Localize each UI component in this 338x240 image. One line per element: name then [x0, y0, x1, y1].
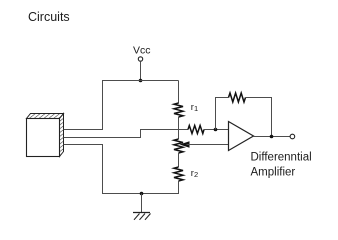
- node junction dot ground: [140, 192, 144, 196]
- label Differenntial Amplifier: [251, 152, 312, 179]
- wire sensor bottom lead and left vertical lower: [64, 145, 103, 194]
- node junction dot VCC / top rail: [139, 79, 143, 83]
- wire sensor middle lead with step: [64, 130, 189, 138]
- wire feedback left vertical: [216, 98, 229, 130]
- svg-text:Differenntial: Differenntial: [251, 152, 312, 164]
- resistor feedback: [229, 93, 246, 102]
- wire r2 to bottom rail: [178, 181, 180, 194]
- wire potentiometer to r2: [178, 153, 180, 167]
- wire bottom rail: [102, 193, 179, 195]
- wire r1 branch top: [178, 81, 180, 104]
- wire feedback right down to output: [246, 98, 272, 137]
- wire series resistor to inverting input: [204, 129, 229, 131]
- node junction dot inverting input: [214, 128, 218, 132]
- svg-text:r2: r2: [191, 168, 198, 179]
- svg-text:Circuits: Circuits: [28, 10, 70, 24]
- wire op-amp output: [254, 136, 291, 138]
- wire r1 to potentiometer: [178, 117, 180, 139]
- op-amp U1: [229, 122, 254, 151]
- svg-text:Vcc: Vcc: [133, 45, 151, 57]
- resistor r2: [174, 167, 183, 181]
- resistor series input (horizontal): [188, 126, 204, 134]
- wire left vertical upper (top rail to sensor top lead): [102, 80, 104, 130]
- wire sensor top lead: [64, 129, 104, 131]
- svg-text:r1: r1: [191, 102, 198, 113]
- ground: [133, 194, 151, 220]
- sensor box (strain gauge): [27, 114, 64, 157]
- svg-text:Amplifier: Amplifier: [251, 167, 296, 179]
- output terminal circle: [290, 134, 295, 139]
- wire VCC stem: [140, 61, 142, 80]
- node junction dot output: [270, 135, 274, 139]
- potentiometer wiper arrow: [180, 141, 229, 148]
- resistor r1: [174, 103, 183, 117]
- VCC terminal circle: [138, 57, 142, 61]
- wire top rail: [102, 80, 179, 82]
- potentiometer body: [174, 139, 183, 153]
